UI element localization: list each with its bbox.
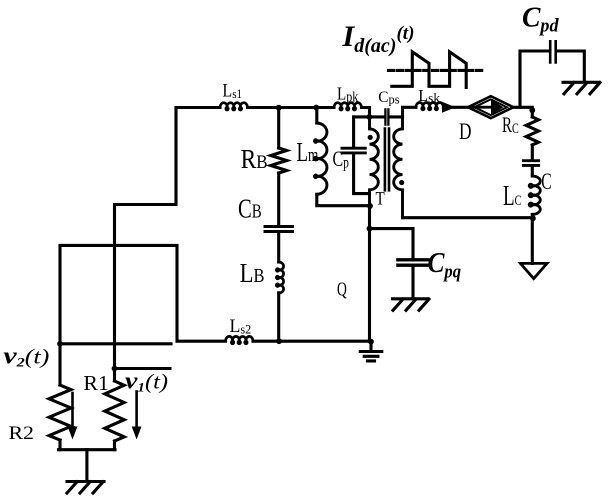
- waveform Id(ac) pulses: [392, 52, 466, 88]
- wire R2 bottom lead: [58, 440, 61, 450]
- resistor RB: [271, 148, 287, 173]
- label Rc: [502, 113, 519, 138]
- inductor Lsk: [416, 103, 443, 110]
- wire v2 stub: [60, 342, 171, 345]
- svg-text:R1: R1: [83, 371, 108, 395]
- node mid rail junction: [367, 114, 373, 120]
- node Lc bottom: [530, 215, 536, 221]
- wire mid rail left: [354, 115, 385, 118]
- wire Lc to ground: [531, 214, 534, 263]
- label T: [376, 188, 386, 209]
- node LB bottom: [276, 338, 282, 344]
- label Lpk: [337, 83, 359, 105]
- capacitor Cp: [342, 148, 365, 153]
- capacitor Cps: [385, 109, 388, 124]
- wire Cpq branch: [370, 229, 414, 258]
- inductor Ls2: [226, 336, 253, 343]
- ground Cpd slanted: [563, 82, 600, 94]
- wire R1 bottom lead: [113, 441, 116, 450]
- node main ground: [368, 339, 374, 345]
- svg-text:D: D: [459, 120, 471, 145]
- wire Lsk rail: [403, 106, 416, 109]
- node Rc top: [529, 107, 535, 113]
- label Q: [337, 278, 347, 300]
- node v1: [112, 366, 118, 372]
- capacitor CB: [265, 227, 293, 232]
- label Ls1: [222, 79, 242, 101]
- svg-text:R2: R2: [9, 423, 34, 443]
- capacitor Cpd: [550, 41, 556, 62]
- wire Cpd branch right: [557, 51, 584, 82]
- label v1(t): [125, 367, 168, 395]
- svg-text:C: C: [541, 169, 551, 195]
- transformer core: [385, 129, 389, 191]
- node v2: [57, 341, 63, 347]
- arrow through R2: [71, 393, 74, 427]
- svg-text:Q: Q: [337, 278, 347, 300]
- node Lm top: [313, 105, 319, 111]
- label Ls2: [230, 316, 252, 337]
- capacitor C: [523, 161, 538, 166]
- wire left branch to R1: [115, 108, 177, 382]
- label Cpd: [522, 2, 559, 37]
- svg-text:v1(t): v1(t): [125, 367, 168, 395]
- label CB: [238, 195, 262, 224]
- arrow inside diamond: [472, 106, 493, 109]
- wire CB to LB: [277, 233, 280, 262]
- wire Q branch: [368, 206, 371, 342]
- ground left slanted: [67, 482, 104, 494]
- wire top rail middle segment: [248, 106, 335, 109]
- wire RB branch top lead: [277, 108, 280, 149]
- resistor R1: [105, 381, 124, 441]
- ground right triangle: [520, 263, 547, 278]
- waveform dashed average line: [389, 69, 483, 72]
- wire Cp top lead: [352, 117, 355, 147]
- ground Cpq slanted: [393, 299, 429, 311]
- wire Lm bottom: [317, 194, 370, 205]
- label C: [541, 169, 551, 195]
- node primary bottom: [367, 203, 373, 209]
- wire v2 loop: [60, 245, 226, 385]
- node Ls1 right / RB top: [276, 105, 282, 111]
- phase dot secondary: [399, 180, 404, 185]
- wire ground stub left: [85, 450, 88, 482]
- label Lm: [297, 138, 319, 168]
- wire Lsk to diamond: [443, 106, 468, 109]
- wire top rail left segment: [176, 106, 220, 109]
- capacitor Cpq: [398, 260, 428, 265]
- inductor LB: [276, 262, 283, 293]
- svg-text:T: T: [376, 188, 386, 209]
- wire Ls2 to ground node: [253, 340, 371, 343]
- label LB: [240, 259, 265, 288]
- wire bottom bar: [59, 448, 116, 451]
- wire Lm branch: [315, 108, 318, 124]
- arrowhead on Lsk wire: [442, 102, 456, 113]
- transformer T secondary winding: [394, 107, 403, 217]
- wire LB bottom lead: [277, 293, 280, 341]
- wire Rc to C: [531, 145, 534, 159]
- wire secondary return: [403, 216, 533, 219]
- wire C to Lc: [531, 167, 534, 176]
- node Cpq tap: [367, 226, 373, 232]
- wire Cpd branch left: [520, 51, 549, 107]
- dependent source D outer diamond: [468, 96, 513, 118]
- arrow v1: [135, 392, 138, 428]
- label R1: [83, 371, 108, 395]
- phase dot primary: [368, 135, 373, 140]
- label Id(ac)(t): [341, 20, 414, 57]
- resistor R2: [49, 385, 71, 440]
- wire v1 stub: [115, 367, 171, 370]
- inductor Lc: [529, 176, 540, 214]
- wire Cp bottom lead: [354, 154, 370, 193]
- label Cps: [378, 89, 399, 107]
- label Cpq: [428, 246, 462, 281]
- transformer T primary winding: [370, 117, 379, 206]
- inductor Lm: [314, 123, 327, 194]
- wire RB to CB: [277, 173, 280, 225]
- label v2(t): [3, 342, 49, 370]
- label Cp: [333, 148, 349, 172]
- label Lsk: [418, 86, 440, 106]
- inductor Lpk: [334, 103, 361, 110]
- resistor Rc: [526, 117, 538, 145]
- dependent source D inner diamond: [474, 99, 507, 115]
- wire Lpk down to mid rail: [362, 108, 370, 117]
- inductor Ls1: [220, 103, 247, 110]
- label RB: [241, 145, 268, 175]
- svg-text:Cps: Cps: [378, 89, 399, 107]
- label R2: [9, 423, 34, 443]
- ground center bars: [360, 342, 382, 361]
- wire diamond to Rc corner: [513, 107, 532, 117]
- wire mid rail right: [390, 115, 403, 118]
- label Lc: [503, 182, 521, 212]
- wire Cpq bottom lead: [411, 267, 414, 299]
- svg-text:v2(t): v2(t): [3, 342, 49, 370]
- label D: [459, 120, 471, 145]
